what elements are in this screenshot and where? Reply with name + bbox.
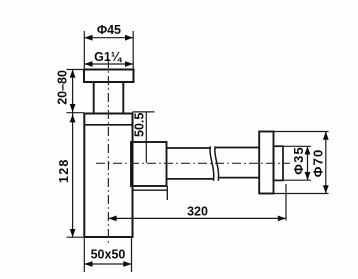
svg-text:128: 128 <box>57 158 71 182</box>
dim Φ70 top extension line <box>274 131 329 133</box>
threaded neck G1 1/4 (right wall) <box>122 82 124 114</box>
dim G1 1/4 dimension line <box>84 63 133 65</box>
nut skirt step <box>133 186 167 190</box>
dim 128 bottom arrow <box>70 229 76 237</box>
wall flange plate <box>259 132 273 194</box>
dim Φ70 dimension line <box>325 132 327 194</box>
trap body cup 50x50 <box>84 114 132 238</box>
outlet compression nut <box>131 142 167 186</box>
dim 50x50 right arrow <box>123 261 131 267</box>
dim Φ35 dimension line <box>307 146 309 180</box>
wall tube stub <box>274 146 284 180</box>
dim Φ70 up arrow <box>323 132 329 140</box>
dim 50x50 left extension line <box>83 237 85 272</box>
svg-text:Φ35: Φ35 <box>291 146 306 175</box>
svg-text:50x50: 50x50 <box>91 248 126 262</box>
outlet pipe bottom edge (right of break) <box>218 177 259 179</box>
vertical centerline of body <box>107 59 109 245</box>
dim Φ35 down arrow <box>305 172 311 180</box>
dim 20-80 bottom arrow <box>70 104 76 112</box>
dim Φ35 top extension line <box>284 145 311 147</box>
horizontal centerline of pipe <box>96 162 290 164</box>
dim Φ45 right extension line <box>132 31 134 69</box>
svg-text:G1¼: G1¼ <box>94 50 123 64</box>
dim G1 1/4 right arrow <box>125 61 133 67</box>
nut skirt hanging edge <box>166 190 168 200</box>
dim Φ45 left arrow <box>84 35 92 41</box>
pipe break symbol left curve <box>210 146 214 181</box>
dim Φ35 bottom extension line <box>284 179 311 181</box>
svg-text:50.5: 50.5 <box>133 113 147 137</box>
dim 50x50 left arrow <box>84 261 92 267</box>
dim 320 right extension line <box>285 184 287 221</box>
body lid seam line <box>84 124 132 126</box>
dim 20-80 top extension tick <box>67 69 85 71</box>
threaded neck G1 1/4 (left wall) <box>93 82 95 114</box>
svg-text:20–80: 20–80 <box>55 70 69 105</box>
dim Φ35 up arrow <box>305 146 311 154</box>
dim 128 dimension line <box>72 113 74 238</box>
dim 320 dimension line <box>108 217 286 219</box>
dim 320 right arrow <box>278 216 286 222</box>
dim 128 top arrow <box>70 114 76 122</box>
dim 20-80 top arrow <box>70 70 76 78</box>
dim Φ70 bottom extension line <box>274 193 329 195</box>
svg-text:320: 320 <box>187 204 208 218</box>
outlet pipe top edge (right of break) <box>216 147 260 149</box>
dim Φ45 left extension line <box>83 31 85 69</box>
dim 50.5 top extension line <box>133 111 155 113</box>
pipe break symbol right curve <box>215 146 219 181</box>
dim 50x50 right extension line <box>131 237 133 272</box>
svg-text:Φ70: Φ70 <box>310 149 325 178</box>
dim G1 1/4 left arrow <box>84 61 92 67</box>
dim Φ45 right arrow <box>125 35 133 41</box>
dim 50.5 dimension line <box>145 112 147 163</box>
top flange (tap rosette, side view) <box>84 70 134 83</box>
dim 20-80 dimension line <box>72 70 74 113</box>
outlet pipe bottom edge (left of break) <box>167 178 214 180</box>
dim Φ45 dimension line <box>84 37 133 39</box>
outlet pipe top edge (left of break) <box>167 147 210 149</box>
dim 20-80 / 128 shared extension tick at body top <box>67 112 85 114</box>
dim 320 left arrow <box>108 216 116 222</box>
dim 128 bottom extension tick <box>67 236 85 238</box>
dim 50x50 dimension line <box>84 263 131 265</box>
svg-text:Φ45: Φ45 <box>97 23 121 37</box>
dim Φ70 down arrow <box>323 185 329 193</box>
